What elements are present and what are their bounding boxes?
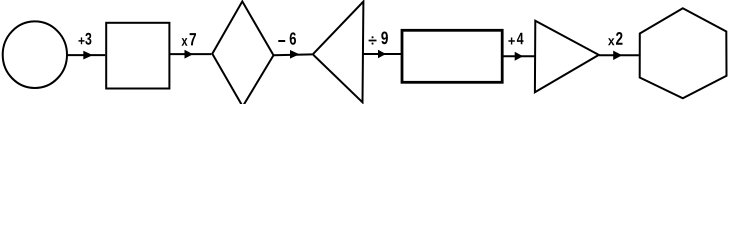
wire arrow 4 — [363, 50, 401, 58]
wire arrow 1 — [67, 51, 105, 60]
wire arrow 5 — [502, 52, 535, 61]
diamond shape — [212, 1, 273, 106]
right-pointing triangle shape — [535, 21, 599, 93]
wire arrow 6 — [599, 51, 639, 60]
label x7 — [182, 33, 197, 46]
label x2 — [608, 32, 623, 45]
square shape — [106, 23, 169, 89]
label +3 — [79, 33, 92, 45]
wire arrow 2 — [169, 50, 211, 59]
label ÷9 — [369, 32, 388, 45]
label -6 — [278, 32, 296, 44]
wire arrow 3 — [274, 50, 313, 59]
left-pointing triangle shape — [313, 2, 364, 103]
rectangle shape — [402, 30, 502, 82]
label +4 — [508, 33, 523, 45]
circle shape (start node) — [3, 21, 67, 88]
hexagon shape (end node) — [640, 8, 727, 98]
